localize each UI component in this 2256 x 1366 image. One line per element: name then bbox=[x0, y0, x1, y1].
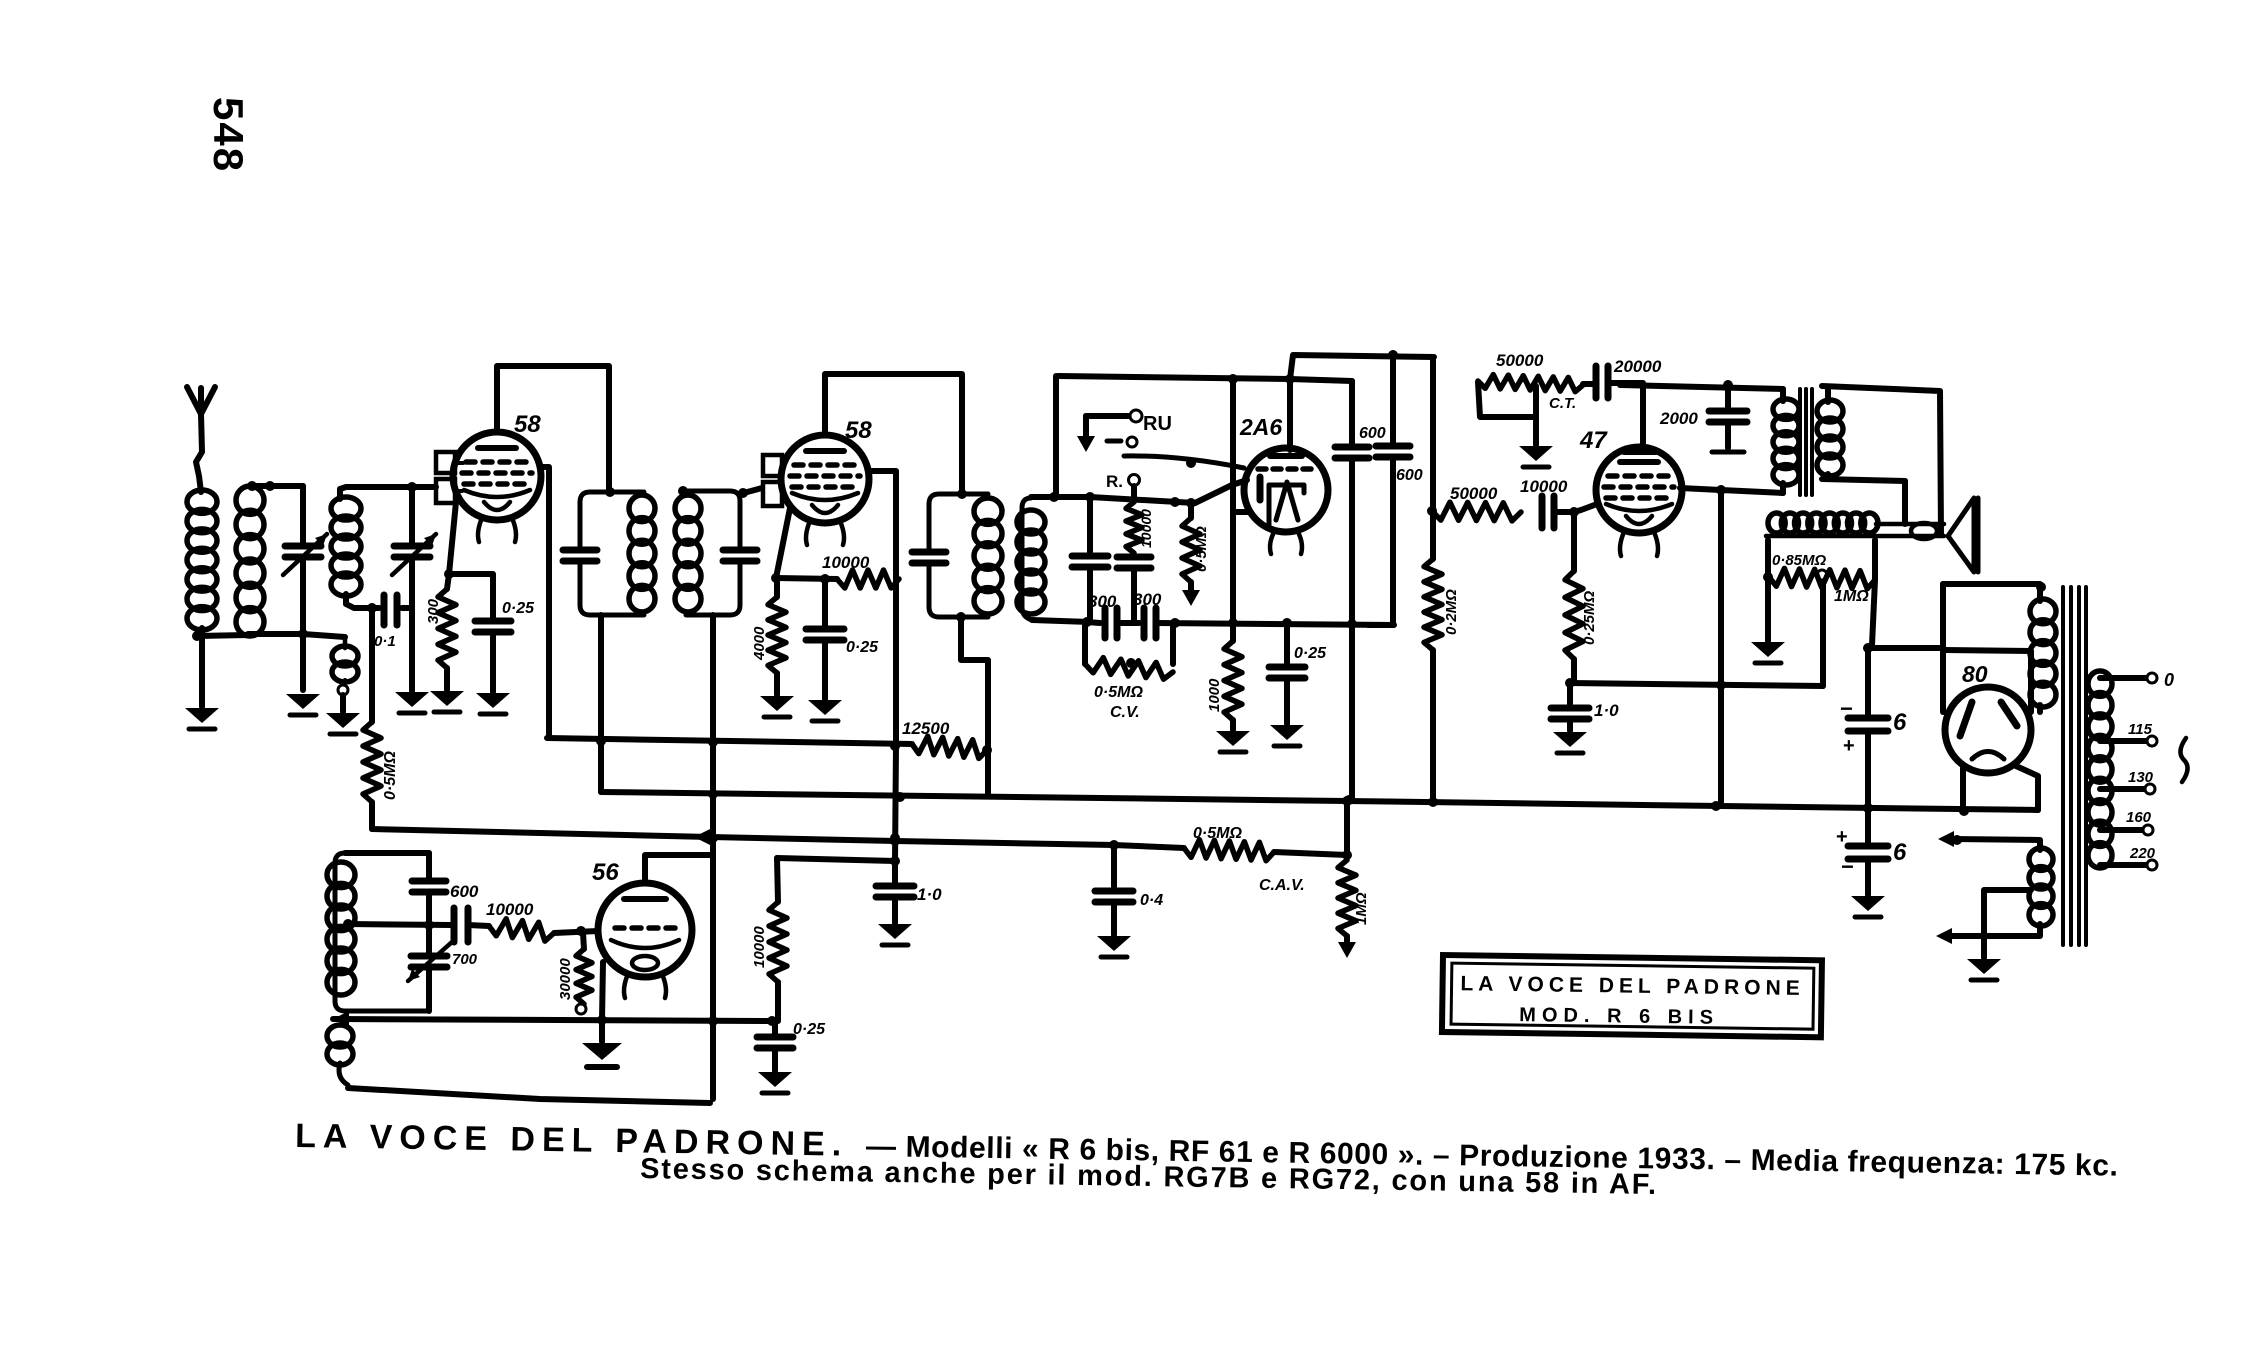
arrow below CAV resistor bbox=[1338, 942, 1356, 958]
node tap CV bbox=[1126, 658, 1136, 668]
wire L3 to ground bbox=[340, 695, 346, 712]
variable capacitor C1 bbox=[285, 543, 321, 550]
resistor 0.5Mohm AVC bbox=[369, 608, 375, 722]
IF transformer T1 primary frame bbox=[580, 492, 644, 615]
svg-text:1·0: 1·0 bbox=[917, 885, 942, 904]
wire C1 bottom lead bbox=[300, 557, 306, 690]
47 top cap bar bbox=[1624, 449, 1656, 455]
wire cathode bus caps to rectifier frame bbox=[1868, 645, 1941, 651]
capacitor in T2 primary bbox=[912, 549, 946, 556]
resistor 1Mohm zigzag bbox=[1769, 568, 1875, 588]
svg-text:2A6: 2A6 bbox=[1239, 414, 1282, 440]
wire oscillator frame top bbox=[345, 850, 429, 856]
resistor 0.5MA C.V. bypass bbox=[1082, 623, 1088, 664]
svg-text:0·1: 0·1 bbox=[374, 633, 396, 650]
svg-text:C.A.V.: C.A.V. bbox=[1259, 877, 1305, 894]
svg-text:50000: 50000 bbox=[1450, 484, 1498, 503]
svg-text:1·0: 1·0 bbox=[1594, 701, 1619, 720]
switch contact RO bbox=[1129, 475, 1140, 486]
wire V2 plate drop bbox=[868, 471, 896, 861]
coil T3 primary bbox=[1773, 399, 1799, 419]
wire 50000 to 20000 bbox=[1583, 381, 1594, 387]
svg-text:115: 115 bbox=[2128, 721, 2153, 738]
node C1/L2 bottom bbox=[298, 629, 308, 639]
resistor 10000 oscillator grid bbox=[489, 919, 554, 941]
node L4-top / C2 bbox=[407, 482, 417, 492]
rectifier frame mid line bbox=[1944, 650, 2031, 651]
wire to capacitor 0.25 V2 bbox=[822, 579, 828, 626]
svg-text:58: 58 bbox=[514, 411, 541, 438]
ground under L3 bbox=[326, 713, 360, 728]
IF transformer T1 secondary frame bbox=[686, 491, 740, 615]
switch blade bbox=[1124, 456, 1244, 468]
wire 56 top cap bbox=[645, 855, 713, 883]
node T1 primary top bbox=[605, 487, 615, 497]
wire 0.5Mohm to AVC bus bbox=[369, 802, 375, 829]
svg-text:300: 300 bbox=[1088, 592, 1117, 611]
resistor 50000 plate filter bbox=[1478, 382, 1533, 417]
svg-text:0: 0 bbox=[2164, 670, 2174, 690]
arrow filament wire b bbox=[1936, 928, 1952, 944]
resistor 1000 bbox=[1224, 641, 1242, 720]
ground under resistor 4000 bbox=[760, 696, 794, 711]
wave change switch bbox=[1086, 413, 1128, 419]
resistor 0.5Mohm zigzag bbox=[363, 722, 381, 802]
node bus1/V2 plate bbox=[890, 741, 900, 751]
wire detector grid line bbox=[1090, 497, 1195, 503]
coil T2 primary bbox=[974, 498, 1002, 524]
power transformer filament winding bbox=[1953, 839, 2040, 850]
svg-text:2000: 2000 bbox=[1659, 409, 1698, 428]
tube V3 type 2A6 detector bbox=[1244, 448, 1328, 532]
arrow on AVC bus bbox=[694, 829, 710, 845]
wire bus to 600 cap elbow bbox=[1156, 623, 1394, 625]
grid cap blocks V2 bbox=[763, 455, 782, 476]
resistor 0.25Mohm grid 47 bbox=[1571, 512, 1577, 571]
ground under filter caps bbox=[1851, 896, 1885, 911]
wire V2 cathode bbox=[776, 508, 790, 578]
wire V1 plate to bus bbox=[540, 467, 549, 738]
ground filament CT bbox=[1967, 959, 2001, 974]
wire to voice coil bbox=[1902, 481, 1908, 524]
caption line 2 bbox=[640, 1153, 1658, 1201]
terminal circle L3 bbox=[338, 685, 348, 695]
svg-text:10000: 10000 bbox=[751, 926, 768, 968]
capacitor 20000 bbox=[1593, 366, 1600, 398]
wire RO stub bbox=[1131, 486, 1137, 500]
resistor 4000 V2 screen bbox=[774, 579, 780, 597]
capacitor in T1 primary bbox=[563, 547, 597, 554]
tube V4 type 47 output bbox=[1596, 447, 1682, 533]
rectifier frame right edge bbox=[2028, 651, 2034, 712]
mains selector hook bbox=[2180, 738, 2187, 782]
svg-text:LA VOCE DEL PADRONE: LA VOCE DEL PADRONE bbox=[1460, 972, 1805, 1000]
wire 1Mohm right drop bbox=[1868, 540, 1875, 648]
svg-text:56: 56 bbox=[592, 859, 619, 886]
svg-text:600: 600 bbox=[450, 882, 479, 901]
ground under 56 bbox=[599, 1021, 605, 1042]
capacitor 2000 bbox=[1723, 380, 1733, 390]
capacitor 0.4 bbox=[1111, 845, 1117, 888]
wire 0.2Mohm to bus2 bbox=[1430, 650, 1436, 802]
bus B- line 1 bbox=[547, 738, 912, 744]
svg-text:R.: R. bbox=[1106, 472, 1123, 491]
IF transformer T2 secondary frame bbox=[1022, 498, 1032, 620]
link bus2 to AVC bus bbox=[1344, 801, 1350, 855]
variable capacitor C2 bbox=[394, 543, 430, 550]
resistor 10000 zigzag third bbox=[769, 902, 787, 982]
coil L4 bbox=[331, 497, 361, 520]
capacitor 0.25 V1 cathode bbox=[475, 618, 511, 625]
antenna bbox=[187, 387, 201, 414]
output transformer T3 primary bbox=[1780, 389, 1786, 401]
tap circle on 1Mohm bbox=[1817, 570, 1827, 580]
wire T1 secondary bottom long drop bbox=[710, 615, 716, 1099]
arrow left end osc bus bbox=[333, 1011, 349, 1027]
chassis bus under detector bbox=[1087, 622, 1100, 623]
wire to 47 grid bbox=[1557, 504, 1597, 512]
resistor 0.2Mohm bbox=[1430, 511, 1436, 559]
wire L2 top edge bbox=[250, 483, 303, 489]
node L4-bottom / 0.5Mohm bbox=[367, 603, 377, 613]
node T2 primary bottom bbox=[956, 612, 966, 622]
svg-text:600: 600 bbox=[1359, 425, 1386, 442]
wire 20000 to 47 top cap bbox=[1610, 383, 1643, 449]
capacitor 0.1 bbox=[381, 595, 388, 625]
filament winding bottom wire bbox=[1950, 924, 2040, 936]
svg-text:548: 548 bbox=[205, 97, 252, 173]
rail above T3 to speaker bbox=[1822, 386, 1941, 535]
wire T2 secondary bottom edge bbox=[1032, 620, 1090, 622]
coil HV bbox=[2030, 599, 2056, 624]
ground under capacitor 0.25 V2 bbox=[808, 700, 842, 715]
resistor 0.2Mohm zigzag bbox=[1424, 559, 1442, 650]
wire oscillator right edge upper bbox=[426, 853, 432, 878]
wire capacitor 0.1 to C2 bbox=[402, 605, 412, 611]
wire L1 to ground bbox=[199, 628, 205, 707]
node oscillator coil tap bbox=[343, 919, 353, 929]
power transformer core bbox=[2063, 587, 2086, 945]
svg-text:0·4: 0·4 bbox=[1140, 892, 1163, 909]
svg-text:C.T.: C.T. bbox=[1549, 395, 1576, 412]
svg-text:0·25: 0·25 bbox=[846, 639, 879, 656]
arrow filament wire a bbox=[1938, 831, 1954, 847]
capacitor 0.25 oscillator bbox=[772, 1021, 778, 1034]
arrow below 0.5Mohm bbox=[1182, 590, 1200, 606]
capacitor in T2 secondary bbox=[1087, 497, 1093, 553]
svg-text:MOD. R 6 BIS: MOD. R 6 BIS bbox=[1519, 1004, 1719, 1029]
capacitor 600 a bbox=[1349, 381, 1355, 444]
node osc bus right end bbox=[767, 1016, 777, 1026]
ground under 0.25 det bbox=[1270, 725, 1304, 740]
power transformer HV winding bbox=[2037, 587, 2043, 601]
wire L4 top edge to grid bbox=[340, 487, 436, 499]
svg-text:47: 47 bbox=[1579, 427, 1608, 454]
svg-text:0·5MΩ: 0·5MΩ bbox=[382, 751, 399, 800]
arrow of variable capacitor C2 bbox=[392, 534, 436, 575]
resistor 0.25Mohm zigzag bbox=[1565, 571, 1583, 659]
ground under C2 bbox=[395, 692, 429, 707]
wire 80 filament right bbox=[2016, 766, 2038, 810]
oscillator coil bbox=[327, 862, 355, 888]
ground under C1 bbox=[286, 694, 320, 709]
wire 80 filament left bbox=[1960, 768, 1966, 811]
svg-text:0·25: 0·25 bbox=[502, 600, 535, 617]
coil T1 secondary bbox=[675, 495, 701, 522]
main B- bus 2 bbox=[601, 792, 2038, 810]
tube V6 type 56 oscillator bbox=[598, 883, 692, 977]
svg-text:0·2MΩ: 0·2MΩ bbox=[1443, 589, 1460, 635]
resistor 10000 V2 bbox=[837, 570, 899, 588]
svg-text:RU: RU bbox=[1143, 413, 1172, 435]
tube V1 type 58 RF amplifier bbox=[453, 432, 541, 520]
svg-text:50000: 50000 bbox=[1496, 351, 1544, 370]
ground under resistor 1000 bbox=[1216, 731, 1250, 746]
capacitor 700 bbox=[451, 908, 458, 942]
caption line 1 bbox=[295, 1117, 2119, 1184]
vertical 2A6 diode line bbox=[1230, 379, 1236, 641]
svg-text:10000: 10000 bbox=[822, 553, 870, 572]
wire L4 bottom hook bbox=[346, 594, 372, 608]
svg-text:10000: 10000 bbox=[1520, 477, 1568, 496]
svg-text:C.V.: C.V. bbox=[1110, 704, 1140, 721]
wire 600b elbow to chassis bus bbox=[1368, 457, 1393, 625]
resistor 10000 zigzag bbox=[1126, 502, 1142, 553]
wire grid to 2A6 bbox=[1195, 480, 1247, 503]
filament center tap bbox=[1984, 890, 2029, 958]
B+ rail top bbox=[1058, 376, 1352, 381]
node antenna-coil/L2 junction bbox=[192, 631, 202, 641]
variable capacitor oscillator bbox=[411, 953, 447, 960]
voice coil oval bbox=[1911, 523, 1937, 539]
svg-text:20000: 20000 bbox=[1613, 357, 1662, 376]
coil mains primary bbox=[2088, 671, 2112, 696]
ground bus oscillator bbox=[333, 1019, 772, 1021]
node V1 cathode bbox=[444, 569, 454, 579]
capacitor under 10000 bbox=[1117, 554, 1151, 561]
svg-text:130: 130 bbox=[2128, 769, 2154, 786]
ground G1 bbox=[185, 708, 219, 723]
wire 600a to bus2 bbox=[1349, 458, 1355, 800]
node T1 secondary top bbox=[678, 486, 688, 496]
node 0.2M/50000 bbox=[1427, 506, 1437, 516]
mains tap 130 bbox=[2100, 786, 2144, 792]
mains tap 115 bbox=[2100, 738, 2146, 744]
node 47 cathode bus bbox=[1565, 678, 1575, 688]
capacitor 600 b bbox=[1390, 355, 1396, 443]
switch arrow bbox=[1077, 436, 1095, 452]
svg-text:0·25: 0·25 bbox=[1294, 645, 1327, 662]
svg-text:0·5MΩ: 0·5MΩ bbox=[1193, 825, 1242, 842]
resistor 1Mohm CAV zigzag bbox=[1338, 860, 1356, 936]
B+ rail to output transformer bbox=[1620, 385, 1783, 389]
wire to capacitor 0.1 bbox=[372, 605, 379, 611]
node V2 cathode bbox=[771, 573, 781, 583]
ground under 1.0 47 bbox=[1553, 732, 1587, 747]
resistor 300 cathode bias bbox=[438, 589, 456, 668]
tube V5 type 80 rectifier bbox=[1945, 687, 2031, 773]
ground C.T. bbox=[1533, 386, 1539, 445]
svg-text:6: 6 bbox=[1893, 839, 1907, 866]
wire to capacitor 0.25 V1 bbox=[449, 574, 493, 618]
output transformer T3 secondary bbox=[1825, 388, 1831, 402]
capacitor 600 oscillator bbox=[412, 878, 446, 885]
switch contact RU bbox=[1130, 410, 1142, 422]
wire detector plate line bbox=[1290, 355, 1434, 379]
capacitor 0.25 detector bbox=[1284, 623, 1290, 664]
coil T2 secondary bbox=[1017, 510, 1045, 534]
wire L2 bottom edge bbox=[248, 634, 345, 637]
speaker field coil bbox=[1768, 513, 1785, 533]
svg-text:600: 600 bbox=[1396, 467, 1423, 484]
svg-text:80: 80 bbox=[1962, 661, 1988, 687]
svg-text:220: 220 bbox=[2129, 845, 2156, 862]
svg-text:700: 700 bbox=[452, 951, 478, 968]
wire cathode to 10000 bbox=[776, 578, 837, 579]
wire T3 secondary bottom bbox=[1822, 479, 1905, 481]
svg-text:0·5MΩ: 0·5MΩ bbox=[1193, 526, 1210, 572]
wire C2 bottom lead bbox=[409, 557, 415, 691]
feedback coil bbox=[327, 1025, 353, 1047]
AVC bus bbox=[372, 829, 1184, 848]
wire T1 primary bottom drop bbox=[598, 615, 604, 792]
resistor 0.5Mohm grid leak bbox=[1188, 503, 1194, 518]
svg-text:1000: 1000 bbox=[1206, 678, 1223, 712]
svg-text:0·25MΩ: 0·25MΩ bbox=[1581, 590, 1598, 645]
speaker cone bbox=[1948, 498, 1974, 572]
svg-text:300: 300 bbox=[1133, 590, 1162, 609]
node T2 primary top bbox=[957, 489, 967, 499]
svg-text:12500: 12500 bbox=[902, 719, 950, 738]
svg-text:+: + bbox=[1843, 735, 1855, 757]
wire T2 primary bottom elbow bbox=[961, 617, 988, 795]
wire from detector plate down bbox=[1430, 357, 1436, 511]
wire V1 top cap to B+ rail bbox=[497, 366, 609, 492]
node AVC bus crossing bbox=[890, 833, 900, 843]
mains tap 160 bbox=[2100, 827, 2142, 833]
wire C2 top lead bbox=[409, 487, 415, 543]
mains tap 220 bbox=[2100, 862, 2146, 868]
filter capacitor 6 second bbox=[1865, 808, 1871, 843]
arrow of variable capacitor C1 bbox=[283, 534, 327, 575]
antenna coil L1 bbox=[187, 490, 217, 513]
resistor 50000 audio bbox=[1432, 502, 1521, 521]
capacitor 300 a bbox=[1102, 608, 1109, 638]
capacitor 300 b bbox=[1141, 608, 1148, 638]
mains tap 0 bbox=[2100, 675, 2146, 681]
grid cap blocks V1 bbox=[436, 452, 455, 473]
wire V1 cathode bbox=[449, 502, 456, 574]
node 12500 right bbox=[982, 745, 992, 755]
wire oscillator right edge middle bbox=[426, 892, 432, 953]
resistor 0.5MA AVC bbox=[1184, 840, 1274, 861]
coil T3 secondary bbox=[1817, 400, 1843, 422]
svg-text:300: 300 bbox=[425, 598, 442, 624]
capacitor 0.25 V2 cathode bbox=[806, 626, 844, 633]
wire 2A6 top cap bbox=[1287, 379, 1293, 450]
wire field coil left down bbox=[1765, 540, 1771, 577]
wire C1 top lead bbox=[300, 486, 306, 543]
arrow of oscillator variable capacitor bbox=[408, 942, 452, 981]
svg-text:4000: 4000 bbox=[751, 626, 768, 661]
resistor 10000 third bbox=[777, 858, 895, 861]
bus 47 cathode bbox=[1569, 683, 1823, 686]
wire oscillator right edge lower bbox=[426, 967, 432, 1011]
wire oscillator tap to grid bbox=[348, 924, 451, 925]
wire B+ feed to T2 secondary top bbox=[1053, 376, 1059, 497]
wire V2 top cap to B+ rail bbox=[825, 374, 962, 494]
svg-text:6: 6 bbox=[1893, 709, 1907, 736]
tilted return line bbox=[348, 1088, 710, 1103]
wire L1-L2 link bbox=[197, 635, 248, 636]
capacitor 10000 coupling bbox=[1539, 496, 1546, 528]
terminal 30000 bottom bbox=[576, 1004, 586, 1014]
ground under 0.25 osc bbox=[758, 1072, 792, 1087]
svg-text:160: 160 bbox=[2126, 809, 2152, 826]
svg-text:58: 58 bbox=[845, 417, 872, 444]
wire 47 plate long drop to bus2 bbox=[1718, 490, 1724, 806]
svg-text:30000: 30000 bbox=[557, 958, 574, 1000]
rectifier frame bbox=[1943, 581, 2040, 587]
svg-text:1MΩ: 1MΩ bbox=[1353, 892, 1370, 925]
capacitor 1.0 47 cathode bbox=[1567, 683, 1573, 705]
resistor 30000 zigzag bbox=[576, 949, 592, 1004]
coil L3 bbox=[332, 646, 358, 666]
core T3 bbox=[1800, 389, 1812, 495]
resistor 0.5Mohm zigzag 2A6 bbox=[1182, 518, 1200, 582]
ground under 1Mohm bbox=[1751, 642, 1785, 657]
oscillator tuned circuit bbox=[335, 853, 429, 1011]
wire to resistor 300 bbox=[447, 574, 449, 589]
svg-text:10000: 10000 bbox=[486, 900, 534, 919]
filter capacitor 6 first bbox=[1865, 648, 1871, 715]
ground under capacitor 0.25 V1 bbox=[476, 693, 510, 708]
coil filament bbox=[2029, 848, 2053, 870]
svg-text:1MΩ: 1MΩ bbox=[1834, 588, 1869, 605]
resistor 4000 zigzag bbox=[768, 597, 786, 673]
svg-text:0·5MΩ: 0·5MΩ bbox=[1094, 684, 1143, 701]
wire 47 plate to output transformer bbox=[1721, 490, 1783, 493]
coil L2 bbox=[236, 486, 264, 514]
capacitor in T1 secondary bbox=[723, 547, 757, 554]
resistor 12500 bbox=[912, 736, 987, 758]
wire 1Mohm tap to cathode bus bbox=[1820, 580, 1826, 686]
node oscillator tap bbox=[424, 920, 434, 930]
coil T1 primary bbox=[629, 495, 655, 522]
IF transformer T2 primary frame bbox=[929, 494, 988, 617]
oscillator coupling coil L3 bbox=[343, 637, 348, 648]
wire 1Mohm left to ground bbox=[1765, 580, 1771, 641]
capacitor 1.0 second bbox=[892, 861, 898, 883]
svg-text:10000: 10000 bbox=[1138, 509, 1154, 548]
wire grid V2 from T1 bbox=[740, 488, 762, 494]
ground under 1.0 second bbox=[878, 924, 912, 939]
wire diode return to 2A6 bbox=[1233, 509, 1248, 515]
tube V2 type 58 IF amplifier bbox=[781, 435, 869, 523]
svg-text:−: − bbox=[1840, 696, 1853, 721]
title box La Voce del Padrone bbox=[1442, 955, 1822, 1037]
svg-text:0·25: 0·25 bbox=[793, 1021, 826, 1038]
wire 47 plate bbox=[1680, 488, 1721, 490]
wire AVC to CAV resistor bbox=[1274, 852, 1347, 855]
ground under resistor 300 bbox=[430, 691, 464, 706]
wire T2 secondary top edge bbox=[1031, 494, 1090, 500]
switch contact K bbox=[1127, 437, 1137, 447]
svg-text:−: − bbox=[1841, 854, 1854, 879]
wire 56 cathode to ground bus bbox=[602, 962, 603, 1020]
ground under 0.4 bbox=[1097, 936, 1131, 951]
